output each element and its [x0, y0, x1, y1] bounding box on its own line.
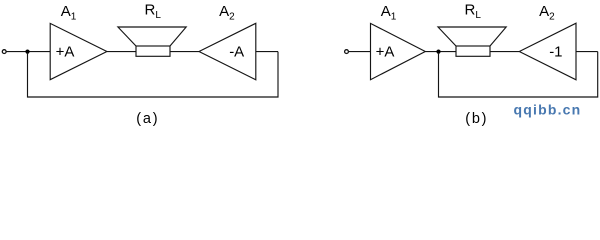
input terminal circle (b) [345, 50, 349, 54]
op-amp A2 triangle (a) [199, 23, 256, 80]
wire input to A1 (a) [6, 51, 50, 53]
wire feedback loop (b) [439, 52, 598, 97]
wire A2 output right (a) [256, 51, 278, 53]
wire speaker to A2 (b) [490, 51, 519, 53]
speaker RL box (a) [136, 46, 170, 56]
svg-text:A2: A2 [219, 3, 235, 22]
svg-text:-1: -1 [549, 44, 562, 61]
svg-text:(b): (b) [465, 111, 488, 127]
wire A1 output to speaker (b) [425, 51, 456, 53]
wire input to A1 (b) [349, 51, 371, 53]
svg-text:A2: A2 [539, 3, 555, 22]
svg-text:(a): (a) [136, 111, 159, 127]
speaker RL cone (b) [438, 27, 506, 46]
svg-text:A1: A1 [381, 3, 397, 22]
svg-text:-A: -A [229, 44, 244, 61]
wire feedback loop (a) [28, 52, 279, 97]
op-amp A1 triangle (a) [50, 23, 107, 79]
node junction dot (a) [25, 50, 29, 54]
op-amp A2 triangle (b) [519, 23, 576, 80]
svg-text:A1: A1 [61, 3, 77, 22]
svg-text:+A: +A [56, 44, 75, 61]
op-amp A1 triangle (b) [371, 23, 426, 79]
speaker RL box (b) [456, 46, 490, 56]
svg-text:RL: RL [145, 2, 162, 21]
speaker RL cone (a) [118, 27, 186, 46]
wire speaker to A2 (a) [170, 51, 199, 53]
svg-text:qqibb.cn: qqibb.cn [514, 101, 582, 117]
wire A1 output to speaker (a) [107, 51, 136, 53]
wire A2 output right (b) [576, 51, 598, 53]
svg-text:+A: +A [376, 44, 395, 61]
input terminal circle (a) [2, 50, 6, 54]
svg-text:RL: RL [465, 2, 482, 21]
node junction dot (b) [436, 50, 440, 54]
